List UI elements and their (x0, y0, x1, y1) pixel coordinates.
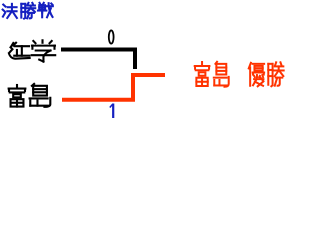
title 決勝戦 (Final) in blue (3, 3, 53, 19)
winner line (富島, orange): right, up, then right to winner label (62, 75, 165, 100)
team name 延学 (top) in black (9, 40, 55, 61)
winner label 富島 優勝 in orange (195, 62, 284, 87)
score 1 (bottom match score) in blue (110, 104, 113, 119)
team name 富島 (bottom) in black (9, 84, 51, 107)
bracket line top (延学, black): right then down (61, 50, 135, 70)
score 0 (top match score) in black (109, 30, 114, 43)
